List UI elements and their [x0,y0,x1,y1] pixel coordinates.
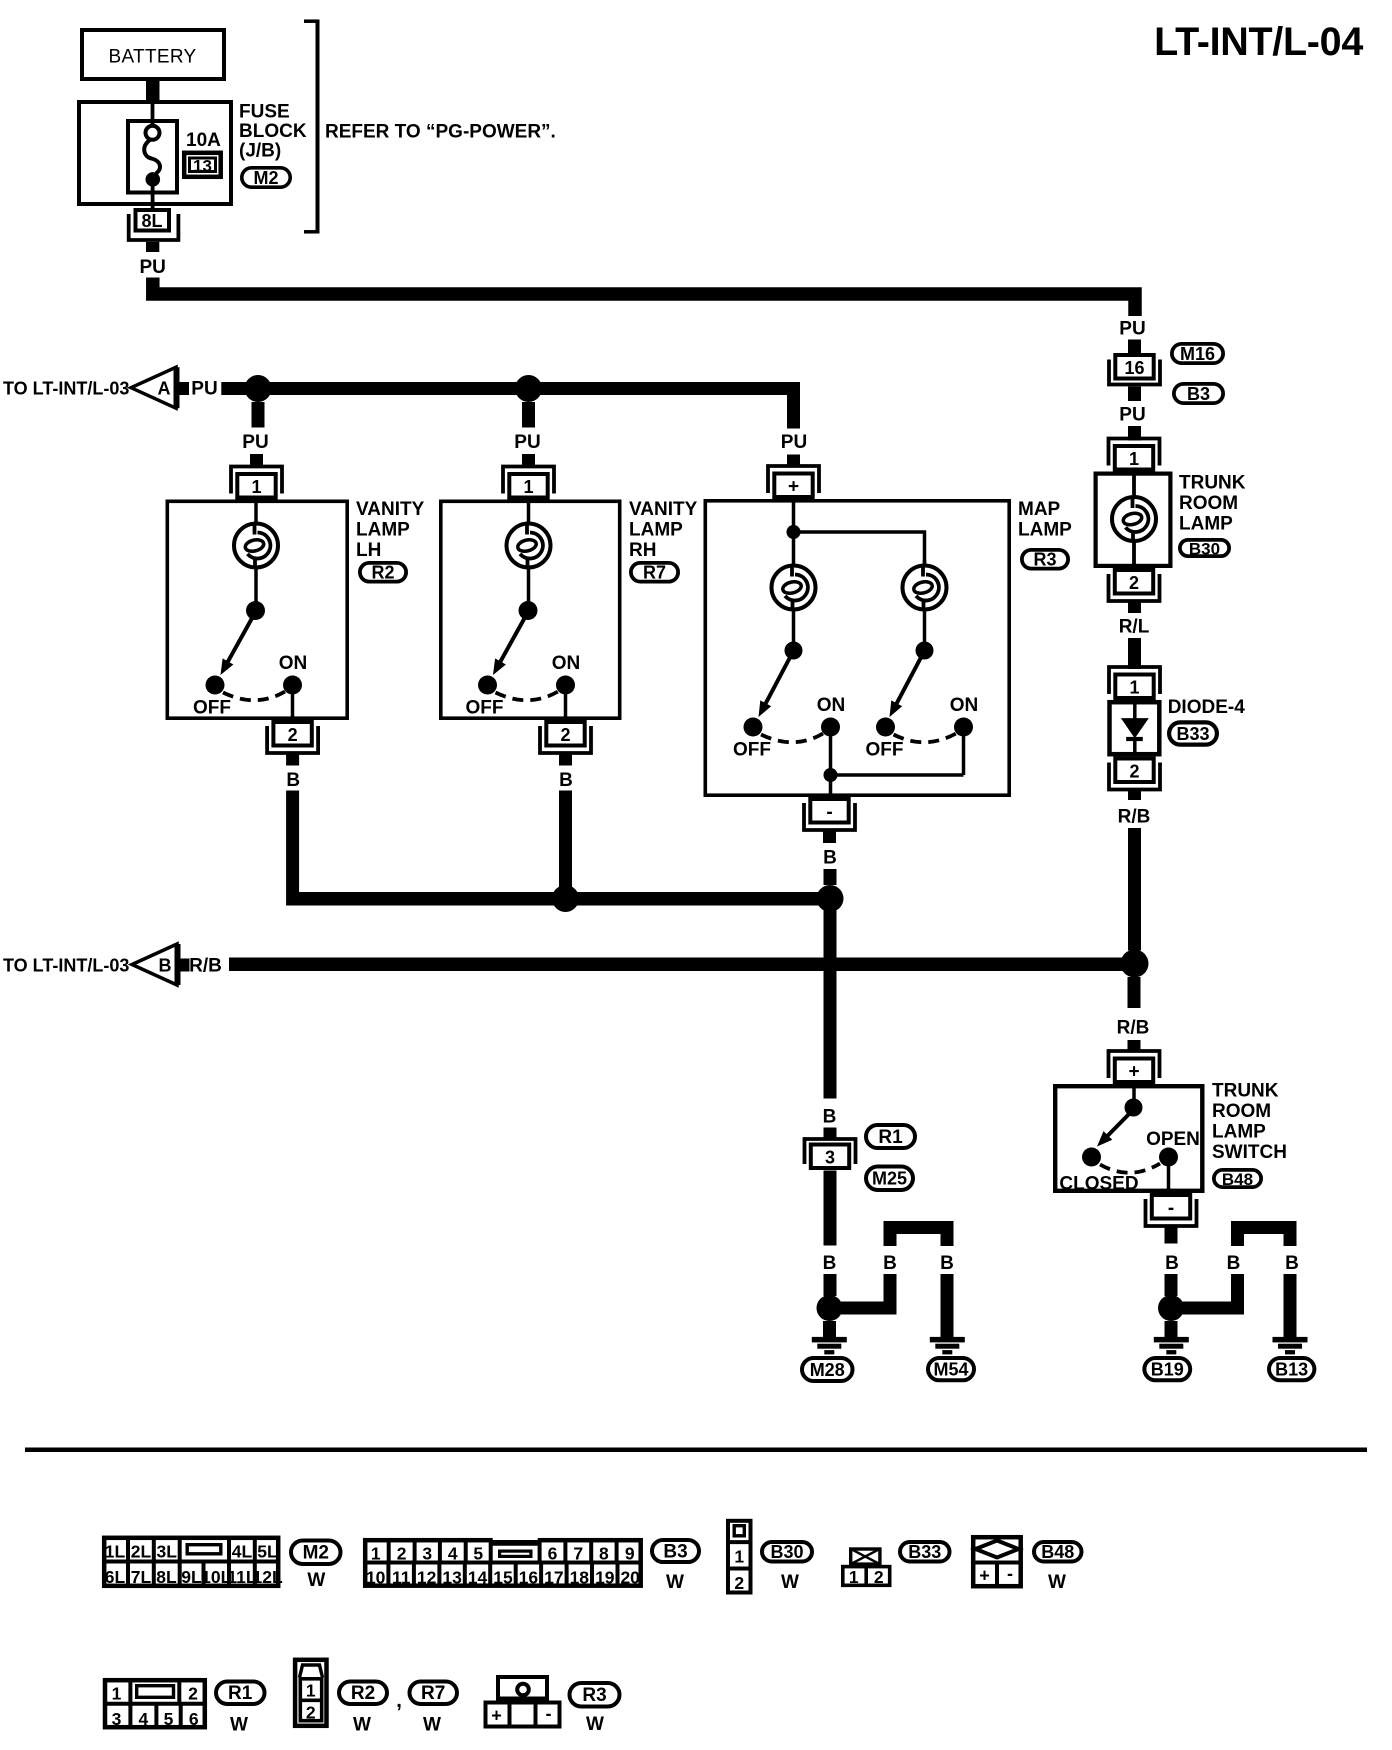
svg-text:19: 19 [595,1568,615,1588]
svg-text:B33: B33 [1176,724,1209,744]
connector B3 oval [1174,384,1223,403]
svg-text:B19: B19 [1151,1360,1184,1380]
svg-text:M2: M2 [303,1543,329,1564]
svg-text:18: 18 [570,1568,590,1588]
svg-text:DIODE-4: DIODE-4 [1168,697,1246,718]
vanity LH connector 1 [231,467,282,494]
flag B to LT-INT/L-03 [132,944,177,985]
svg-text:R/L: R/L [1119,617,1150,638]
svg-text:8L: 8L [156,1567,177,1587]
svg-text:R1: R1 [228,1683,253,1704]
wire vanity LH lamp top [254,500,258,525]
connector 3 R1/M25 [805,1139,856,1164]
svg-text:OFF: OFF [866,740,904,761]
svg-text:B: B [823,1107,837,1128]
ground M54 [930,1337,965,1343]
svg-text:+: + [788,477,799,498]
svg-text:LAMP: LAMP [1212,1122,1266,1143]
svg-text:4: 4 [139,1709,149,1729]
svg-text:B30: B30 [770,1542,803,1562]
svg-text:RH: RH [629,540,656,561]
svg-text:2: 2 [288,725,298,745]
map lamp output junction [824,768,838,782]
trunk switch CLOSED contact [1082,1148,1101,1167]
wire into trunk switch [1132,1084,1136,1107]
bulb map lamp 1 [772,566,816,610]
map switch 1 pivot [785,642,803,660]
wire vanity RH lamp to pivot [527,568,531,602]
svg-text:16: 16 [1124,358,1144,378]
svg-text:20: 20 [620,1568,640,1588]
svg-text:R/B: R/B [1117,1018,1150,1039]
fuse F13 10A [128,121,177,193]
vanity LH connector 2 [267,726,318,753]
svg-text:A: A [158,379,171,399]
connector R3 oval [1022,550,1068,569]
svg-text:B: B [1227,1253,1241,1274]
junction dot M28 [817,1295,843,1321]
wire vanity LH to B bus [286,791,299,893]
svg-text:W: W [586,1714,604,1735]
ground M28 [812,1337,847,1343]
table R3 oval [570,1683,620,1707]
wire to M28 junction [824,1274,837,1296]
svg-text:B: B [1165,1253,1179,1274]
svg-text:B48: B48 [1222,1170,1253,1189]
svg-text:M16: M16 [1180,344,1215,364]
vanity RH OFF contact [478,676,497,695]
junction dot B19 [1158,1295,1184,1321]
wire OPEN to minus [1167,1166,1171,1193]
wire below R/B junction [1128,977,1141,1008]
vanity LH switch arm arrow [227,616,254,664]
svg-text:B13: B13 [1275,1360,1308,1380]
svg-text:4: 4 [448,1544,458,1564]
map switch 2 arm arrow [896,656,922,706]
wire branch to M54 horizontal [836,1302,897,1315]
trunk room lamp switch box B48 [1055,1086,1202,1191]
connector B48 oval [1214,1170,1261,1187]
svg-text:R/B: R/B [189,956,222,977]
svg-text:-: - [1168,1198,1174,1219]
wire stub above diode [1128,638,1141,669]
svg-text:1: 1 [371,1544,381,1564]
svg-text:6L: 6L [105,1567,126,1587]
svg-text:3: 3 [825,1148,835,1168]
svg-text:2: 2 [734,1573,744,1593]
svg-text:-: - [546,1704,552,1724]
diode connector 1 [1109,667,1160,694]
fuse block box [79,102,231,204]
svg-text:8L: 8L [141,211,162,231]
svg-text:ON: ON [552,653,581,674]
svg-text:ON: ON [279,653,308,674]
separator line [25,1448,1367,1453]
trunk switch connector + [1109,1051,1160,1078]
table connector R2/R7 pinout [295,1660,326,1726]
svg-text:1: 1 [523,477,533,497]
svg-text:B30: B30 [1189,539,1220,558]
wire map output down [829,775,833,797]
wire R/B bus [229,958,1141,972]
wire branch to B13 horizontal [1178,1302,1245,1315]
table connector R1 pinout [105,1680,205,1727]
table connector B3 pinout [365,1540,641,1586]
trunk switch dashed travel arc [1100,1164,1160,1173]
wire stub after flag A [178,382,190,395]
vanity RH connector 1 [503,467,554,494]
svg-text:-: - [826,802,832,823]
svg-text:VANITY: VANITY [629,499,698,520]
svg-text:2: 2 [188,1684,198,1704]
connector R1 oval [866,1125,915,1148]
svg-text:1L: 1L [105,1542,126,1562]
wire 8L stub [146,242,159,252]
svg-text:OFF: OFF [193,698,231,719]
svg-text:M54: M54 [933,1360,968,1380]
table R7 oval [410,1682,458,1705]
vanity lamp LH box R2 [167,501,347,718]
wire map B down [824,911,837,1099]
vanity RH ON contact [556,676,575,695]
svg-text:W: W [307,1570,325,1591]
wire map bulb1 to pivot [792,610,796,642]
svg-text:1: 1 [849,1567,859,1587]
svg-text:LAMP: LAMP [1179,514,1233,535]
map switch 1 ON contact [821,718,840,737]
svg-text:12L: 12L [253,1567,283,1587]
wire stub above conn 3 [824,1128,837,1140]
svg-text:3: 3 [422,1544,432,1564]
wire stub above ground B19 [1165,1321,1178,1337]
svg-text:TRUNK: TRUNK [1212,1081,1279,1102]
svg-text:13: 13 [193,157,212,176]
ground B19 [1154,1337,1189,1343]
svg-text:2: 2 [874,1567,884,1587]
svg-text:5: 5 [164,1709,174,1729]
svg-text:PU: PU [781,432,807,453]
trunk room lamp box B30 [1096,474,1171,566]
flag A to LT-INT/L-03 [131,367,176,408]
svg-text:R/B: R/B [1118,807,1151,828]
svg-text:TO LT-INT/L-03: TO LT-INT/L-03 [3,379,129,399]
connector B13 oval [1269,1358,1314,1380]
svg-text:1: 1 [1129,678,1139,698]
table B30 oval [762,1542,812,1562]
wire stub above trunk switch conn [1128,1040,1141,1050]
trunk switch OPEN contact [1159,1148,1178,1167]
wire map ON2 down [962,736,966,775]
svg-text:OFF: OFF [466,698,504,719]
connector B30 oval [1180,540,1229,556]
wire vanity LH lamp to pivot [254,568,258,602]
connector R7 oval [631,563,678,582]
wire vanity RH to B bus [559,791,572,893]
svg-text:PU: PU [514,432,540,453]
svg-text:2: 2 [1129,573,1139,593]
table connector B30 pinout [728,1521,751,1593]
vanity lamp RH box R7 [441,501,620,718]
table R1 oval [216,1682,265,1705]
bracket refer [316,20,320,234]
wire stub below vanity LH [286,754,299,766]
svg-text:9L: 9L [181,1567,202,1587]
svg-text:14: 14 [468,1568,488,1588]
connector R2 oval [360,563,406,582]
wire into map lamp [792,499,796,532]
fuse number 13 box [184,153,221,177]
wire down to vanity LH [252,402,265,428]
svg-text:B33: B33 [908,1542,941,1562]
svg-text:OPEN: OPEN [1146,1129,1200,1150]
svg-text:B48: B48 [1041,1542,1074,1562]
svg-text:R1: R1 [878,1127,903,1148]
trunk switch pivot [1125,1099,1143,1117]
vanity RH dashed travel arc [496,692,559,701]
map lamp connector - [804,803,855,830]
table M2 oval [291,1541,341,1565]
connector M25 oval [866,1167,913,1191]
map switch 2 dashed arc [894,734,957,743]
svg-text:LAMP: LAMP [356,520,410,541]
wire branch to B13 up-over [1231,1221,1297,1234]
svg-text:8: 8 [599,1544,609,1564]
bulb vanity lamp RH [507,524,551,568]
junction dot B bus map [817,885,844,912]
svg-text:6: 6 [548,1544,558,1564]
wire stub above trunk conn 1 [1128,426,1141,441]
svg-text:4L: 4L [232,1542,253,1562]
map lamp box R3 [705,501,1009,795]
wire map bulb2 top [923,560,927,566]
svg-text:R2: R2 [351,1683,375,1704]
table connector M2 pinout [104,1538,278,1586]
svg-text:W: W [666,1572,684,1593]
svg-text:M25: M25 [872,1169,907,1189]
svg-text:1: 1 [734,1547,744,1567]
table B33 oval [900,1542,950,1562]
svg-text:5L: 5L [257,1542,278,1562]
wire stub above conn 16 [1128,340,1141,354]
wire stub below vanity RH [559,754,572,766]
svg-text:+: + [979,1566,990,1586]
svg-text:2: 2 [397,1544,407,1564]
svg-text:R3: R3 [1033,550,1056,570]
svg-text:1: 1 [251,477,261,497]
svg-text:B: B [940,1253,954,1274]
svg-text:VANITY: VANITY [356,499,425,520]
connector M54 oval [928,1358,974,1380]
svg-text:9: 9 [625,1544,635,1564]
svg-text:W: W [781,1572,799,1593]
vanity LH dashed travel arc [223,692,285,701]
wire inside trunk lamp [1132,472,1136,569]
svg-text:W: W [423,1715,441,1736]
connector B19 oval [1144,1358,1190,1380]
map switch 2 OFF contact [876,718,895,737]
svg-text:W: W [353,1715,371,1736]
wire stub vanity RH conn [522,454,535,466]
wire stub vanity LH conn [250,454,263,466]
wire stub below map lamp [823,831,836,844]
svg-text:10A: 10A [186,130,221,151]
svg-text:3L: 3L [156,1542,177,1562]
wire B bus [286,892,836,906]
svg-text:12: 12 [417,1568,437,1588]
map switch 2 pivot [916,642,934,660]
svg-text:BLOCK: BLOCK [239,121,307,142]
svg-text:(J/B): (J/B) [239,141,281,162]
svg-text:1: 1 [1129,449,1139,469]
svg-text:FUSE: FUSE [239,102,290,123]
vanity LH OFF contact [206,676,225,695]
connector B33 oval [1169,722,1217,744]
svg-text:SWITCH: SWITCH [1212,1142,1287,1163]
svg-text:+: + [1128,1062,1139,1083]
bulb trunk room lamp [1112,497,1156,541]
wire down to vanity RH [522,402,535,428]
svg-text:B: B [559,770,573,791]
wire map lamp branch [794,532,925,564]
junction dot R/B bus [1121,950,1149,978]
diode symbol [1133,702,1137,719]
wire stub below trunk switch [1165,1227,1178,1244]
svg-text:6: 6 [189,1709,199,1729]
wire map output horizontal [831,773,964,777]
trunk switch connector - [1146,1199,1197,1226]
svg-text:B3: B3 [663,1541,687,1562]
svg-text:ROOM: ROOM [1179,493,1238,514]
map switch 2 ON contact [954,718,973,737]
wire diode to R/B junction [1128,828,1141,951]
svg-text:PU: PU [242,432,268,453]
svg-text:-: - [1007,1564,1013,1584]
battery B1 [82,30,224,79]
svg-text:PU: PU [191,379,217,400]
svg-text:11: 11 [392,1568,411,1588]
svg-text:17: 17 [544,1568,563,1588]
connector M2 oval [242,168,290,187]
svg-text:LAMP: LAMP [1018,520,1072,541]
connector 8L [136,210,170,231]
svg-text:TO LT-INT/L-03: TO LT-INT/L-03 [3,956,129,976]
svg-text:B: B [883,1253,897,1274]
wire vanity RH ON to conn 2 [564,694,568,720]
wire battery to fuse block [146,81,160,101]
diode D4 box [1110,702,1160,754]
map lamp connector + [768,466,819,493]
svg-text:B: B [823,848,837,869]
wire below conn 3 [824,1171,837,1246]
wire map lamp to B junction [824,869,837,885]
svg-text:5: 5 [473,1544,483,1564]
diode connector 2 [1109,763,1160,790]
svg-text:7: 7 [573,1544,583,1564]
wire stub above ground M28 [823,1321,836,1337]
junction dot vanity RH [515,375,542,402]
bulb map lamp 2 [903,566,947,610]
wire main PU bus [153,278,1135,317]
svg-text:LAMP: LAMP [629,520,683,541]
svg-text:1: 1 [306,1681,316,1701]
map switch 1 OFF contact [744,718,763,737]
connector 16 M16/B3 [1115,355,1153,379]
svg-text:15: 15 [493,1568,513,1588]
wire vanity RH lamp top [527,500,531,525]
svg-text:B: B [159,956,172,976]
svg-text:PU: PU [1119,405,1145,426]
svg-text:M28: M28 [810,1360,845,1380]
svg-text:3: 3 [112,1709,122,1729]
svg-text:REFER TO “PG-POWER”.: REFER TO “PG-POWER”. [325,122,556,143]
table connector B48 pinout [973,1537,1021,1586]
svg-text:BATTERY: BATTERY [109,47,197,68]
trunk switch arm arrow [1107,1112,1132,1137]
svg-text:TRUNK: TRUNK [1179,473,1246,494]
wire stub below diode [1128,790,1141,800]
connector M16 oval [1172,344,1223,363]
wire branch to M54 up-over [884,1221,954,1234]
connector M28 oval [802,1358,853,1381]
svg-text:LT-INT/L-04: LT-INT/L-04 [1154,20,1363,64]
wire stub after flag B [179,959,190,972]
svg-text:W: W [230,1715,248,1736]
table R2 oval [339,1682,387,1705]
svg-text:16: 16 [519,1568,539,1588]
svg-text:+: + [491,1706,502,1726]
vanity RH switch pivot [519,601,538,620]
svg-text:PU: PU [139,257,165,278]
svg-text:2: 2 [306,1703,316,1723]
vanity LH ON contact [283,676,302,695]
svg-text:ON: ON [950,695,979,716]
vanity LH switch pivot [246,601,265,620]
svg-text:ON: ON [817,695,846,716]
map switch 1 dashed arc [761,734,823,743]
svg-text:2L: 2L [131,1542,152,1562]
table connector R3 pinout [498,1677,547,1699]
vanity RH switch arm arrow [500,616,527,664]
map lamp internal junction [787,525,801,539]
wire map bulb1 top [792,532,796,566]
map switch 1 arm arrow [765,656,791,706]
svg-text:B: B [823,1253,837,1274]
svg-text:R7: R7 [643,563,666,583]
wire map ON1 down [829,736,833,775]
svg-text:R3: R3 [582,1685,606,1706]
svg-text:B3: B3 [1187,384,1210,404]
wire PU distribution bus [221,389,793,429]
svg-text:,: , [396,1689,402,1712]
table B48 oval [1034,1542,1082,1562]
svg-text:MAP: MAP [1018,499,1061,520]
table B3 oval [652,1540,699,1562]
svg-text:13: 13 [442,1568,462,1588]
table connector B33 pinout [851,1549,880,1564]
wire map bulb2 to pivot [923,610,927,642]
svg-text:ROOM: ROOM [1212,1101,1271,1122]
svg-text:10: 10 [366,1568,386,1588]
svg-text:B: B [286,770,300,791]
bulb vanity lamp LH [234,524,278,568]
vanity RH connector 2 [540,726,591,753]
svg-text:R2: R2 [371,563,394,583]
svg-text:M2: M2 [253,168,278,188]
svg-text:PU: PU [1119,319,1145,340]
svg-text:7L: 7L [131,1567,152,1587]
junction dot B bus RH [552,885,579,912]
junction dot vanity LH [245,375,272,402]
